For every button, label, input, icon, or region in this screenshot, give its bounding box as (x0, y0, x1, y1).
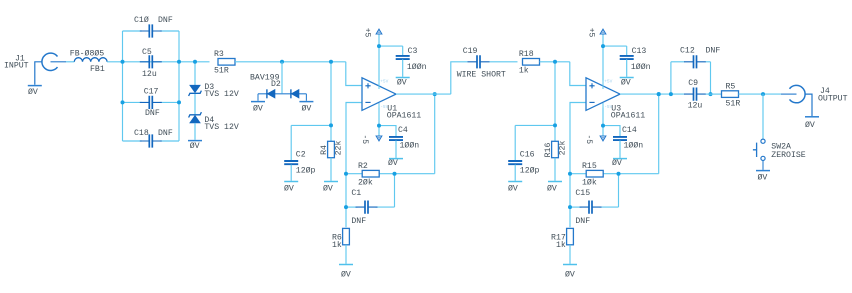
svg-text:DNF: DNF (145, 109, 160, 118)
ground 0V below R6 (339, 264, 353, 266)
junction dots on cap stack (121, 60, 125, 64)
svg-text:1ØØn: 1ØØn (624, 140, 644, 150)
resistor R15 10k (586, 170, 603, 177)
svg-text:C1Ø: C1Ø (134, 15, 149, 25)
ground 0V below C14 (613, 158, 627, 160)
wire R18 to stage 2 (540, 61, 570, 63)
diode pair D2 BAV199 (258, 93, 306, 95)
svg-text:-5: -5 (360, 134, 369, 144)
wire +input bend into op-amp U3 (570, 62, 586, 86)
svg-text:OPA1611: OPA1611 (387, 111, 421, 120)
wire D3 to D4 (194, 94, 196, 114)
resistor R5 51R (722, 91, 739, 98)
svg-text:TVS 12V: TVS 12V (204, 90, 238, 99)
svg-text:-5: -5 (584, 134, 593, 144)
svg-text:+5: +5 (586, 28, 595, 38)
svg-text:ØV: ØV (302, 103, 312, 113)
svg-text:C1: C1 (351, 189, 361, 198)
svg-text:C2: C2 (296, 151, 306, 160)
wire feedback row to resistor R15 (570, 173, 586, 175)
svg-text:1ØØn: 1ØØn (631, 62, 651, 72)
capacitor C4 100n on V- (379, 126, 396, 137)
op-amp U1 OPA1611 (362, 78, 396, 111)
svg-text:ØV: ØV (284, 184, 294, 194)
svg-text:OUTPUT: OUTPUT (818, 95, 848, 104)
wire bypass cap stack right rail (178, 31, 180, 141)
wire C19 to R18 (490, 61, 518, 63)
svg-text:ØV: ØV (805, 120, 815, 130)
svg-text:C5: C5 (142, 48, 152, 57)
switch SW2A ZEROISE pushbutton (761, 139, 765, 143)
ground 0V below R17 (563, 264, 577, 266)
svg-text:R3: R3 (214, 50, 224, 59)
svg-text:D2: D2 (271, 80, 281, 89)
svg-text:12u: 12u (142, 70, 157, 79)
wire -input from op-amp U1 down rail (346, 103, 362, 228)
wire V+ pin of U1 (378, 46, 380, 80)
wire C1 row (346, 206, 358, 208)
svg-text:ZEROISE: ZEROISE (771, 151, 805, 160)
wire R3 to op-amp area (235, 61, 346, 63)
svg-text:R2: R2 (358, 162, 368, 171)
svg-text:12Øp: 12Øp (520, 166, 540, 176)
power +5 supply arrow for U3 (602, 34, 604, 46)
resistor R4 vertical 22k (328, 141, 335, 157)
svg-text:+5V: +5V (604, 79, 612, 85)
resistor R16 vertical 22k (552, 141, 559, 157)
svg-text:DNF: DNF (706, 46, 721, 55)
capacitor C10 DNF row (123, 30, 142, 32)
svg-text:R18: R18 (519, 50, 534, 59)
svg-text:R4: R4 (320, 145, 329, 155)
wire V+ pin of U3 (602, 46, 604, 80)
ground 0V below R16 (548, 181, 562, 183)
svg-text:ØV: ØV (547, 184, 557, 194)
ground 0V left of D2 (257, 94, 259, 101)
svg-text:22k: 22k (334, 141, 344, 156)
wire divider rail to shunt cap (291, 124, 331, 126)
wire input signal line from J1 to FB1 (66, 61, 74, 63)
svg-text:ØV: ØV (323, 184, 333, 194)
svg-text:R16: R16 (544, 143, 553, 158)
svg-text:C15: C15 (575, 189, 590, 198)
junction dots around U1 (329, 60, 333, 64)
svg-text:C14: C14 (622, 126, 637, 135)
wire C9 to R5 (706, 93, 722, 95)
svg-text:ØV: ØV (612, 158, 622, 168)
resistor R6 vertical 1k (343, 228, 350, 244)
svg-text:ØV: ØV (28, 87, 38, 97)
svg-text:ØV: ØV (341, 269, 351, 279)
wire U1 output to C19 (396, 93, 451, 95)
wire SW2A to ground (762, 161, 764, 170)
svg-text:ØV: ØV (758, 172, 768, 182)
wire C12 bypass right rail (710, 62, 712, 94)
svg-text:DNF: DNF (158, 16, 173, 25)
svg-text:ØV: ØV (621, 77, 631, 87)
wire divider rail to shunt cap (515, 124, 555, 126)
svg-text:DNF: DNF (575, 217, 590, 226)
wire U3 output line (620, 93, 684, 95)
wire C15 row (570, 206, 582, 208)
op-amp U3 OPA1611 (586, 78, 620, 111)
svg-text:C13: C13 (632, 47, 647, 56)
svg-text:C4: C4 (398, 126, 408, 135)
ground 0V below D4 (188, 140, 202, 142)
wire feedback row to resistor R2 (346, 173, 362, 175)
wire feedback drop from op-amp U3 output (658, 94, 660, 174)
resistor R2 20k (362, 170, 379, 177)
resistor R18 1k (523, 59, 540, 66)
wire R5 to J4 (739, 93, 782, 95)
svg-text:OPA1611: OPA1611 (611, 111, 645, 120)
capacitor C13 100n on V+ (603, 45, 627, 47)
svg-text:51R: 51R (214, 66, 229, 75)
ground 0V below C13 (620, 77, 634, 79)
ground 0V below R4 (324, 181, 338, 183)
svg-text:1Øk: 1Øk (582, 178, 597, 188)
svg-text:ØV: ØV (253, 103, 263, 113)
connector J1 INPUT (42, 53, 58, 70)
power -5 supply arrow for U1 (378, 126, 380, 137)
svg-text:DNF: DNF (351, 217, 366, 226)
svg-text:R5: R5 (726, 83, 736, 92)
wire -input from op-amp U3 down rail (570, 103, 586, 228)
wire bypass cap stack left rail (122, 31, 124, 141)
wire divider drop from main line at node (554, 62, 556, 142)
svg-text:ØV: ØV (388, 158, 398, 168)
power +5 supply arrow for U1 (378, 34, 380, 46)
op-amp U3 power stubs through body (602, 78, 604, 89)
capacitor C16 120p (508, 161, 522, 164)
diode D3 TVS 12V zener down (190, 85, 200, 92)
svg-text:1ØØn: 1ØØn (400, 140, 420, 150)
wire +input bend into op-amp U1 (346, 62, 362, 86)
svg-text:C19: C19 (463, 47, 478, 56)
svg-text:C17: C17 (144, 87, 159, 96)
wire main line FB1 to R3 (107, 61, 209, 63)
svg-text:DNF: DNF (158, 129, 173, 138)
svg-text:22k: 22k (558, 141, 568, 156)
wire D4 to ground (194, 123, 196, 140)
capacitor C2 drop wire (290, 125, 292, 160)
wire to switch SW2A (762, 94, 764, 139)
capacitor C18 DNF row (123, 140, 142, 142)
op-amp U1 power stubs through body (378, 78, 380, 89)
ground 0V below C4 (389, 158, 403, 160)
resistor R3 51R (218, 59, 235, 66)
ground 0V at J4 (805, 116, 819, 118)
wire V- pin of U1 (378, 108, 380, 126)
svg-text:2Øk: 2Øk (358, 178, 373, 188)
svg-text:1k: 1k (519, 65, 529, 75)
ground 0V below C3 (396, 77, 410, 79)
svg-text:TVS 12V: TVS 12V (204, 123, 238, 132)
svg-text:1ØØn: 1ØØn (407, 62, 427, 72)
connector J4 OUTPUT (790, 85, 806, 102)
svg-text:ØV: ØV (397, 77, 407, 87)
power -5 supply arrow for U3 (602, 126, 604, 137)
svg-text:51R: 51R (726, 99, 741, 108)
wire feedback drop from op-amp U1 output (434, 94, 436, 174)
svg-text:FB1: FB1 (90, 65, 105, 74)
wire branch to TVS diodes (194, 62, 196, 85)
ground 0V below SW2A (756, 170, 770, 172)
svg-text:1k: 1k (332, 240, 342, 250)
ferrite bead FB1 FB-0805 (74, 58, 107, 62)
ground 0V right of D2 (305, 94, 307, 101)
svg-text:R15: R15 (582, 162, 597, 171)
junction dots around U3 (553, 60, 557, 64)
svg-text:12Øp: 12Øp (296, 166, 316, 176)
svg-text:C3: C3 (408, 47, 418, 56)
svg-text:C9: C9 (688, 79, 698, 88)
diode D4 TVS 12V zener up (189, 112, 202, 117)
svg-text:ØV: ØV (190, 141, 200, 151)
svg-text:+5V: +5V (380, 79, 388, 85)
svg-text:WIRE SHORT: WIRE SHORT (457, 70, 506, 79)
svg-text:12u: 12u (688, 101, 703, 110)
capacitor C2 120p (284, 161, 298, 164)
ground 0V at J1 (28, 85, 42, 87)
resistor R17 vertical 1k (567, 228, 574, 244)
wire C12 bypass left rail (670, 62, 672, 94)
capacitor C14 100n on V- (603, 126, 620, 137)
svg-text:1k: 1k (556, 240, 566, 250)
svg-text:FB-Ø8Ø5: FB-Ø8Ø5 (70, 48, 104, 58)
wire branch to BAV199 clamp (281, 62, 283, 94)
capacitor C9 12u in series (684, 93, 706, 95)
svg-text:INPUT: INPUT (4, 61, 29, 70)
capacitor C3 100n on V+ (379, 45, 403, 47)
capacitor C12 DNF row (671, 61, 684, 63)
capacitor C15 DNF (580, 206, 602, 208)
svg-text:ØV: ØV (508, 184, 518, 194)
capacitor C16 drop wire (514, 125, 516, 160)
capacitor C17 DNF row (123, 101, 142, 103)
capacitor C5 12u in series on main line (140, 61, 162, 63)
wire V- pin of U3 (602, 108, 604, 126)
svg-text:C16: C16 (520, 151, 535, 160)
capacitor C1 DNF (356, 206, 378, 208)
svg-text:C12: C12 (680, 46, 695, 55)
svg-text:+5: +5 (362, 28, 371, 38)
svg-text:ØV: ØV (565, 269, 575, 279)
svg-text:C18: C18 (134, 129, 149, 138)
capacitor C19 WIRE SHORT (468, 61, 490, 63)
ground 0V below C2 (284, 181, 298, 183)
wire divider drop from main line at node (330, 62, 332, 142)
ground 0V below C16 (508, 181, 522, 183)
